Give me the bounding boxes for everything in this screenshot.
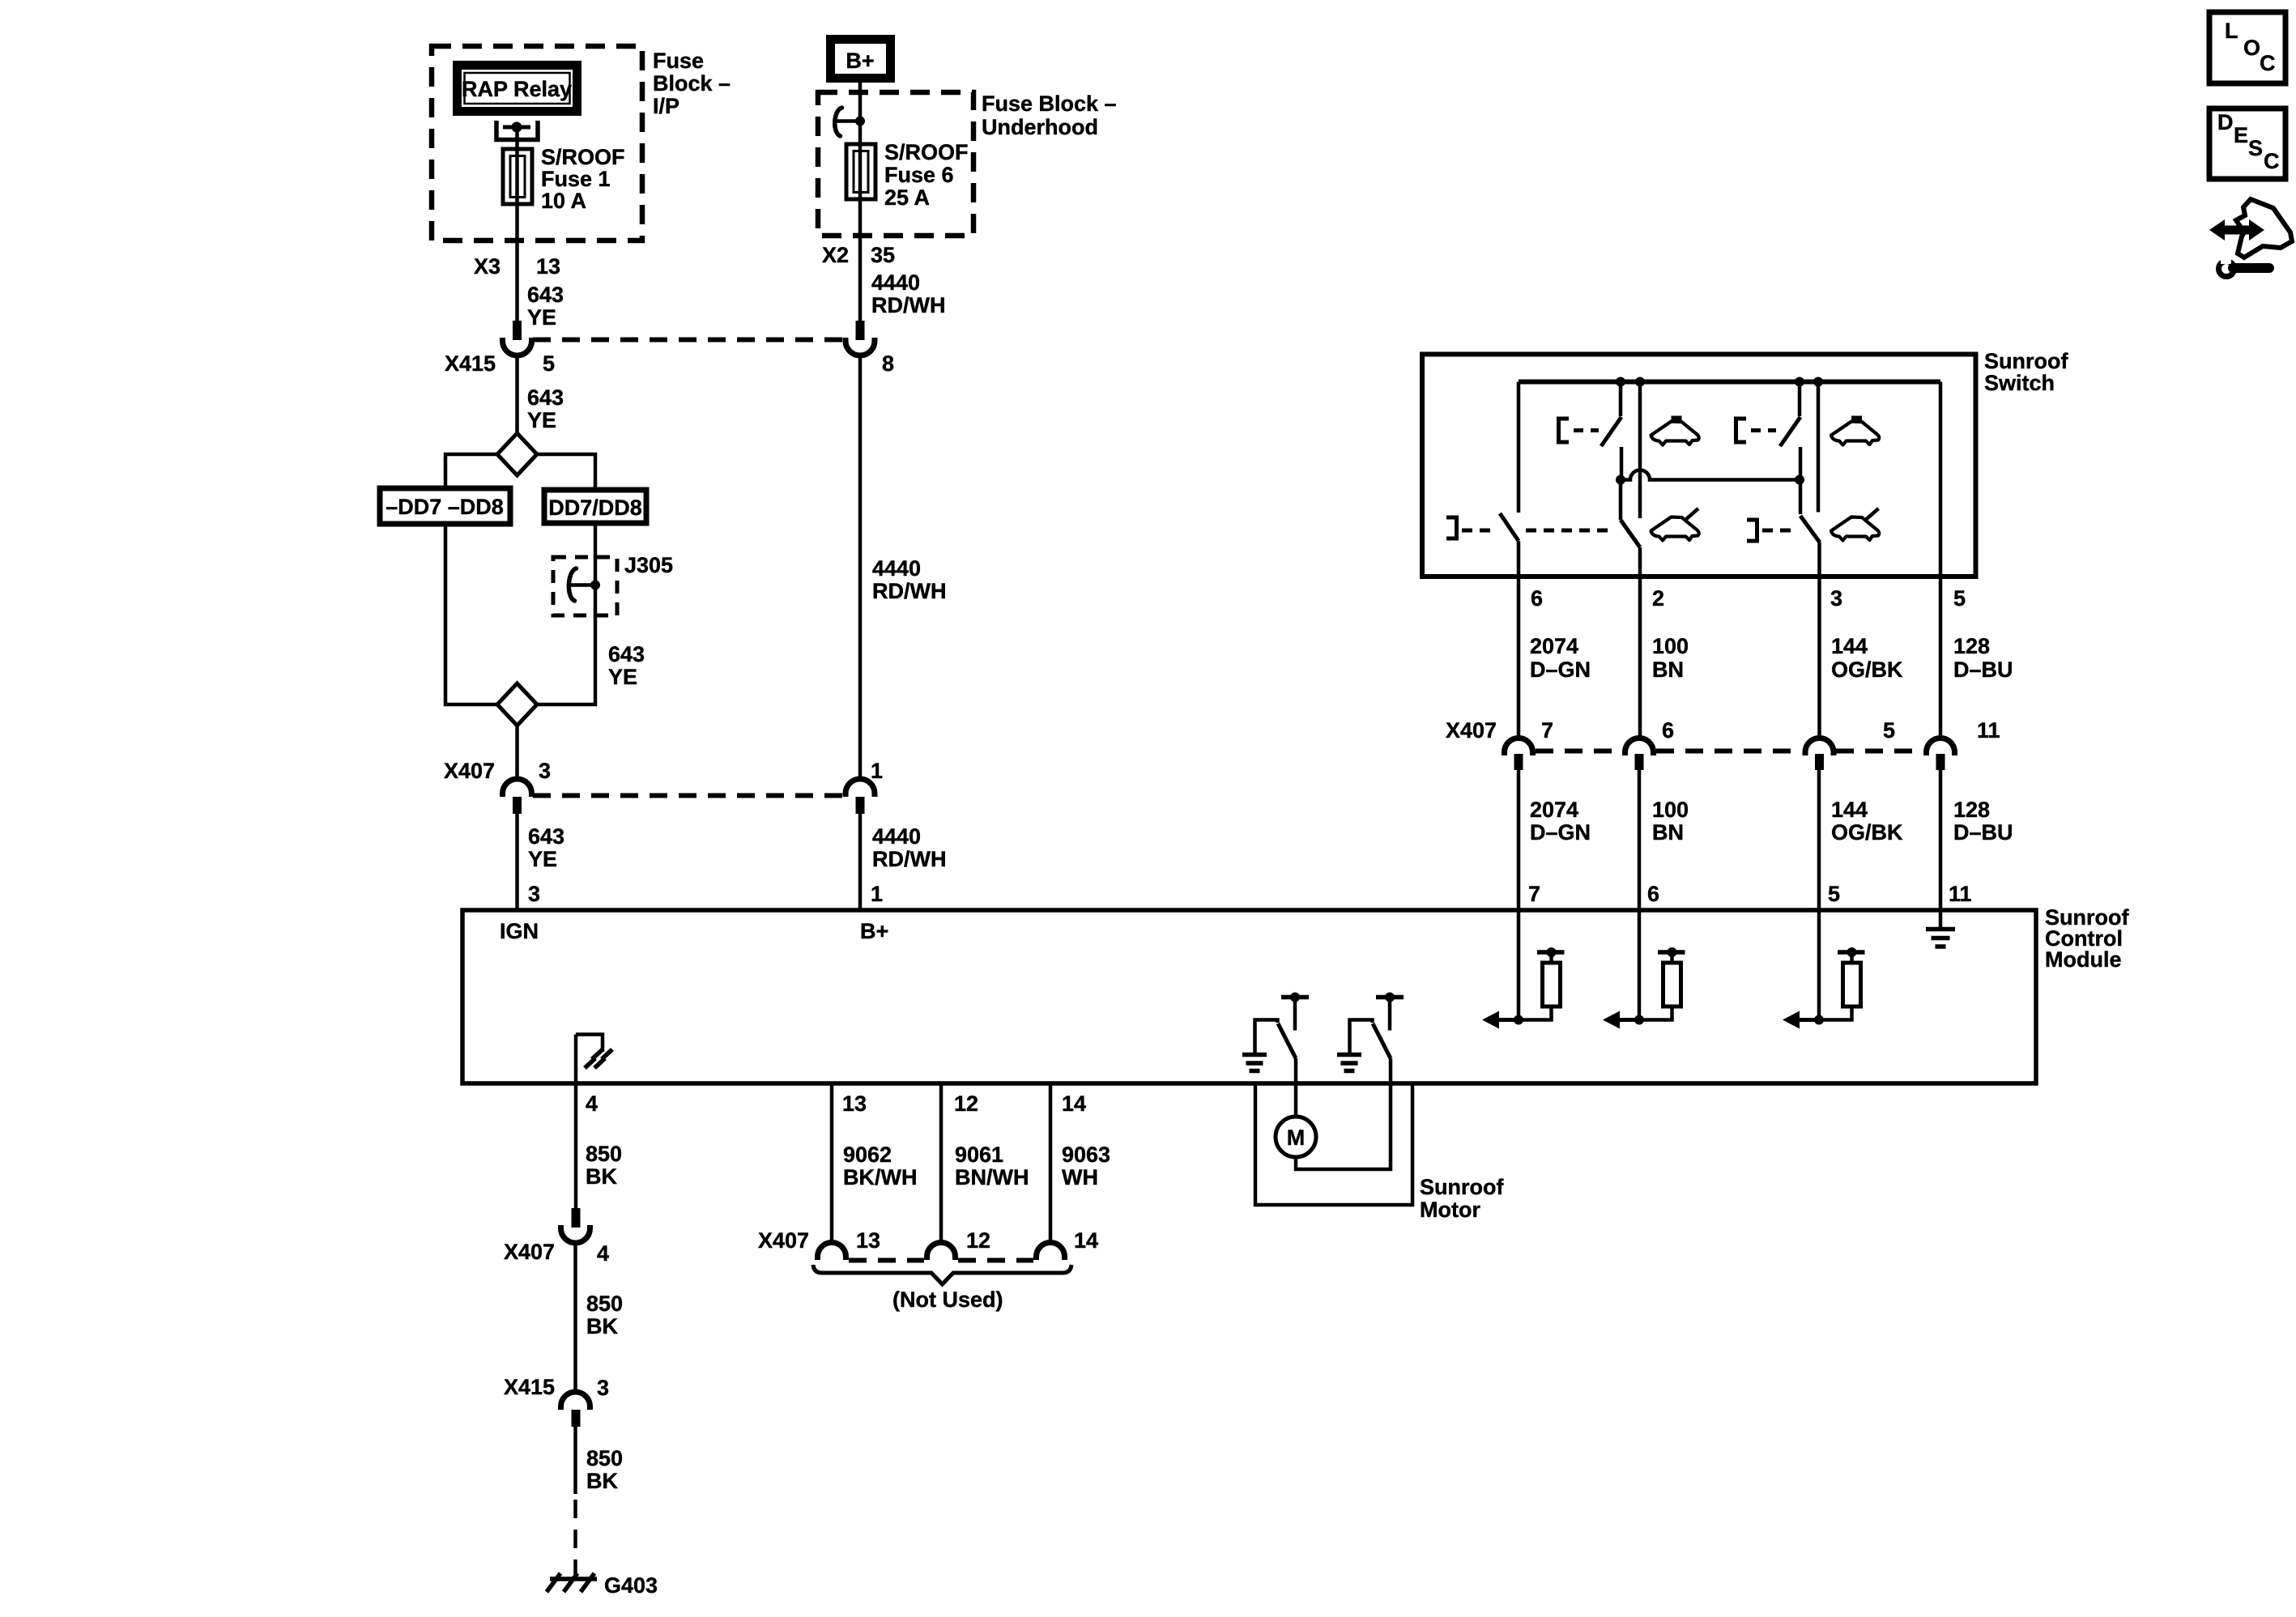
svg-text:12: 12 — [966, 1228, 990, 1253]
label 4440 RD/WH (above module) — [872, 824, 946, 871]
chassis ground (module pin 4 internal) — [576, 1035, 612, 1084]
svg-text:BK/WH: BK/WH — [843, 1165, 917, 1189]
power feed B+ box — [831, 40, 891, 79]
wire fuse6 to X415 pin 8 — [858, 199, 863, 321]
svg-text:2: 2 — [1652, 586, 1664, 611]
svg-text:OG/BK: OG/BK — [1831, 657, 1903, 682]
sunroof switch box — [1422, 355, 1976, 577]
svg-text:14: 14 — [1074, 1228, 1098, 1253]
svg-text:S/ROOF: S/ROOF — [884, 140, 969, 164]
svg-text:6: 6 — [1662, 718, 1674, 743]
label 643 YE (above X415) — [527, 283, 564, 330]
car icon (closed, col2) — [1651, 416, 1699, 445]
label S/ROOF Fuse 1 10 A — [541, 145, 625, 213]
connector X407 row2 arcs — [1505, 738, 1533, 755]
svg-text:I/P: I/P — [653, 94, 679, 118]
switch S4 dashed actuator row (pin6) — [1517, 382, 1521, 513]
svg-text:4440: 4440 — [871, 270, 920, 295]
car icon (vent, col2) — [1651, 509, 1699, 541]
relay contact A (motor drive left) — [1242, 993, 1309, 1084]
svg-text:4: 4 — [597, 1241, 609, 1266]
relay RAP Relay box — [458, 66, 577, 112]
icon power-flow arrow — [2209, 199, 2292, 257]
label 4440 RD/WH (top) — [871, 270, 945, 317]
svg-text:2074: 2074 — [1530, 798, 1578, 822]
label X3 13 — [474, 254, 560, 279]
dashed harness line not-used — [849, 1258, 924, 1263]
svg-text:13: 13 — [856, 1228, 880, 1253]
brace (not used) — [813, 1265, 1071, 1284]
svg-text:YE: YE — [528, 847, 557, 871]
sunroof motor box — [1255, 1083, 1412, 1205]
connector X407 not-used arcs — [818, 1243, 846, 1261]
svg-text:IGN: IGN — [500, 919, 539, 943]
label pins 6 2 3 5 — [1531, 586, 1966, 611]
svg-text:1: 1 — [871, 882, 883, 906]
svg-text:M: M — [1287, 1126, 1306, 1150]
svg-text:850: 850 — [586, 1446, 623, 1470]
switch S1 open contact (upper left) — [1619, 382, 1623, 417]
svg-text:643: 643 — [527, 283, 564, 307]
wire X415 to top diamond — [515, 357, 519, 435]
svg-text:RAP Relay: RAP Relay — [462, 77, 572, 101]
svg-text:BK: BK — [586, 1164, 617, 1189]
sunroof control module box — [462, 910, 2036, 1083]
svg-text:6: 6 — [1531, 586, 1543, 611]
switch bus bar — [1519, 380, 1940, 385]
label Fuse Block - Underhood — [982, 91, 1117, 139]
label 850 BK (middle) — [586, 1291, 623, 1338]
svg-text:Block –: Block – — [653, 71, 731, 96]
svg-text:13: 13 — [842, 1091, 867, 1116]
svg-text:D–GN: D–GN — [1530, 820, 1591, 845]
svg-text:X415: X415 — [445, 351, 496, 376]
car icon (closed, col3) — [1831, 416, 1879, 445]
connector X407 pin 1 (male pin) — [856, 797, 865, 814]
svg-text:Fuse 6: Fuse 6 — [884, 163, 954, 187]
svg-text:850: 850 — [586, 1291, 623, 1316]
wires row2 to module — [1517, 770, 1521, 912]
svg-text:B+: B+ — [846, 49, 874, 73]
svg-text:X3: X3 — [474, 254, 501, 279]
svg-text:X407: X407 — [444, 759, 495, 783]
svg-text:Sunroof: Sunroof — [1420, 1175, 1504, 1199]
wire relay to fuse1 — [515, 127, 519, 154]
wire DD7/DD8 to J305 — [594, 523, 598, 557]
wire left branch (top) — [445, 454, 497, 488]
label module pins 7 6 5 11 — [1528, 882, 1972, 906]
wire X407-4 to X415-3 — [573, 1245, 577, 1394]
svg-text:Fuse Block –: Fuse Block – — [982, 91, 1117, 116]
bus junction dots — [1616, 377, 1625, 387]
wire pin2 out of box — [1638, 547, 1642, 738]
svg-text:100: 100 — [1652, 634, 1689, 658]
icon wrench — [2219, 254, 2270, 277]
wire pin2 from bus (fixed contact) — [1638, 382, 1642, 519]
relay contact B (motor drive right) — [1337, 993, 1404, 1084]
svg-text:144: 144 — [1831, 798, 1868, 822]
dashed harness line X407 — [533, 794, 842, 798]
svg-text:100: 100 — [1652, 798, 1689, 822]
label pin 3 (module IGN) — [528, 882, 540, 906]
svg-text:X415: X415 — [504, 1375, 555, 1399]
svg-text:Fuse: Fuse — [653, 49, 704, 73]
label pins 13 12 14 — [842, 1091, 1086, 1116]
wire right branch (top) — [537, 454, 595, 490]
svg-text:9062: 9062 — [843, 1143, 892, 1167]
svg-text:C: C — [2264, 149, 2280, 173]
label 643 YE (right branch) — [608, 642, 645, 689]
wire fuse1 to X415 pin — [515, 204, 519, 321]
svg-text:5: 5 — [1953, 586, 1966, 611]
label 643 YE (below X415) — [527, 385, 564, 432]
fuse S/ROOF Fuse 1 10A — [503, 149, 532, 204]
label 9061 BN/WH — [955, 1143, 1029, 1189]
switch S2 open contact (upper right) — [1798, 382, 1802, 417]
wire pin3 out of box — [1817, 543, 1821, 738]
splice diamond (top) — [497, 433, 537, 475]
switch S3 blade (lower left col2) — [1619, 480, 1623, 521]
svg-text:X407: X407 — [504, 1240, 555, 1264]
ground (module pin 11) — [1939, 912, 1943, 929]
splice diamond (bottom) — [497, 683, 537, 726]
svg-text:9061: 9061 — [955, 1143, 1003, 1167]
wire X407 to module pin 3 — [515, 814, 519, 912]
driver circuit pin 5 (resistor + arrow) — [1783, 912, 1865, 1029]
fuse S/ROOF Fuse 6 25A — [846, 144, 875, 199]
label 4440 RD/WH (middle) — [872, 556, 946, 603]
wire X407-1 to module pin 1 — [858, 814, 863, 912]
svg-text:–DD7 –DD8: –DD7 –DD8 — [386, 495, 504, 519]
svg-text:RD/WH: RD/WH — [871, 293, 945, 317]
svg-text:BN: BN — [1652, 657, 1684, 682]
connector X407 pin 3 (female arc) — [503, 779, 532, 797]
svg-text:1: 1 — [871, 759, 883, 783]
label Sunroof Motor — [1420, 1175, 1504, 1222]
svg-text:Switch: Switch — [1984, 371, 2055, 395]
icon LOC box — [2209, 12, 2285, 83]
label 643 YE (above module) — [528, 824, 564, 871]
svg-text:11: 11 — [1949, 882, 1972, 906]
wire X415-8 to X407-1 — [858, 357, 863, 780]
svg-text:O: O — [2243, 36, 2260, 60]
svg-text:128: 128 — [1953, 798, 1990, 822]
connector X407 row2 pins — [1514, 754, 1523, 770]
svg-text:11: 11 — [1977, 718, 2000, 743]
svg-text:6: 6 — [1647, 882, 1659, 906]
svg-text:DD7/DD8: DD7/DD8 — [548, 496, 642, 520]
connector X415 pin 5 (male pin) — [513, 321, 522, 340]
svg-text:WH: WH — [1062, 1165, 1098, 1189]
wire left branch (bottom) — [445, 524, 497, 704]
svg-text:B+: B+ — [860, 919, 888, 943]
label pin 1 — [871, 759, 883, 783]
connector X407 pin 3 (male pin) — [513, 797, 522, 814]
label 850 BK (upper) — [586, 1142, 622, 1189]
label pin 4 — [586, 1091, 598, 1116]
relay contact (RAP relay output) — [496, 121, 538, 140]
svg-text:850: 850 — [586, 1142, 622, 1166]
connector X415 pin 8 (female arc) — [846, 338, 875, 355]
label pin 8 — [882, 351, 894, 376]
label IGN B+ — [500, 919, 888, 943]
svg-text:13: 13 — [536, 254, 560, 279]
link wire with crossover hop — [1616, 475, 1625, 485]
label S/ROOF Fuse 6 25 A — [884, 140, 969, 210]
svg-text:Sunroof: Sunroof — [1984, 349, 2068, 373]
svg-text:3: 3 — [528, 882, 540, 906]
label (Not Used) — [892, 1287, 1003, 1312]
svg-text:RD/WH: RD/WH — [872, 579, 946, 603]
label X407 13 12 14 — [758, 1228, 1098, 1253]
label pin 1 (module B+) — [871, 882, 883, 906]
svg-text:D–BU: D–BU — [1953, 657, 2013, 682]
svg-text:Module: Module — [2045, 947, 2122, 972]
car icon (vent, col3) — [1831, 509, 1879, 541]
label wire colors row2 — [1530, 798, 1591, 845]
dashed harness line X415 — [533, 338, 842, 343]
svg-text:4: 4 — [586, 1091, 598, 1116]
connector X415 pin 8 (male pin) — [856, 321, 865, 340]
connector X415 pin 3 (female arc) — [561, 1392, 590, 1410]
svg-text:BK: BK — [586, 1314, 618, 1338]
svg-text:C: C — [2260, 51, 2276, 75]
label X415 5 — [445, 351, 555, 376]
connector X407 pin 1 (female arc) — [846, 779, 875, 797]
motor loop wire — [1296, 1083, 1391, 1169]
wire B+ into fuse block — [858, 83, 863, 144]
svg-text:(Not Used): (Not Used) — [892, 1287, 1003, 1312]
icon DESC box — [2209, 109, 2285, 179]
option box -DD7 -DD8 — [380, 488, 510, 524]
driver circuit pin 7 (resistor + arrow) — [1482, 912, 1565, 1029]
fuse block underhood dashed box — [818, 92, 973, 236]
svg-text:5: 5 — [1883, 718, 1895, 743]
dashed wire to G403 — [573, 1500, 577, 1579]
svg-text:643: 643 — [527, 385, 564, 410]
svg-text:BN/WH: BN/WH — [955, 1165, 1029, 1189]
label 9063 WH — [1062, 1143, 1110, 1189]
svg-text:E: E — [2234, 123, 2248, 147]
label X415 3 — [504, 1375, 609, 1400]
svg-text:YE: YE — [527, 408, 556, 432]
svg-text:Fuse 1: Fuse 1 — [541, 167, 611, 191]
svg-text:S: S — [2248, 136, 2263, 160]
svg-text:3: 3 — [597, 1376, 609, 1400]
svg-text:YE: YE — [608, 665, 637, 689]
label Fuse Block I/P — [653, 49, 731, 118]
svg-text:YE: YE — [527, 305, 556, 330]
svg-text:144: 144 — [1831, 634, 1868, 658]
label J305 — [624, 553, 673, 577]
svg-text:643: 643 — [608, 642, 645, 666]
svg-text:128: 128 — [1953, 634, 1990, 658]
wire X415-3 down — [573, 1427, 577, 1494]
svg-text:7: 7 — [1541, 718, 1553, 743]
label X407 7 6 5 11 — [1446, 718, 2000, 743]
J305 bus hook — [569, 568, 576, 601]
svg-text:L: L — [2225, 19, 2238, 43]
svg-text:Underhood: Underhood — [982, 115, 1098, 139]
svg-text:5: 5 — [1828, 882, 1840, 906]
label wire colors row1 — [1530, 634, 1591, 682]
label X407 3 — [444, 759, 551, 783]
connector X415 pin 5 (female arc) — [503, 338, 532, 355]
svg-text:9063: 9063 — [1062, 1143, 1110, 1167]
svg-text:RD/WH: RD/WH — [872, 847, 946, 871]
svg-text:4440: 4440 — [872, 824, 921, 849]
wire diamond to X407 — [515, 726, 519, 780]
label X407 4 — [504, 1240, 609, 1266]
svg-text:J305: J305 — [624, 553, 673, 577]
label X2 35 — [822, 243, 895, 267]
svg-text:2074: 2074 — [1530, 634, 1578, 658]
svg-text:X2: X2 — [822, 243, 849, 267]
svg-text:D: D — [2217, 110, 2234, 134]
svg-text:643: 643 — [528, 824, 564, 849]
svg-text:4440: 4440 — [872, 556, 921, 581]
svg-text:25 A: 25 A — [884, 185, 930, 210]
svg-text:8: 8 — [882, 351, 894, 376]
svg-text:5: 5 — [543, 351, 555, 376]
connector X415 pin 3 (male pin) — [572, 1410, 581, 1427]
connector X407 pin 4 (female arc) — [561, 1225, 590, 1243]
svg-text:BK: BK — [586, 1469, 618, 1493]
motor M circle — [1294, 1083, 1298, 1117]
svg-text:7: 7 — [1528, 882, 1540, 906]
fuse block I/P dashed box — [432, 46, 642, 240]
svg-text:S/ROOF: S/ROOF — [541, 145, 625, 169]
svg-text:Motor: Motor — [1420, 1198, 1480, 1222]
svg-text:10 A: 10 A — [541, 189, 586, 213]
wire pin6 out of box — [1517, 541, 1521, 738]
dashed harness line X407 row2 — [1536, 749, 1622, 754]
label G403 — [604, 1573, 658, 1598]
ground G403 — [547, 1573, 597, 1592]
driver circuit pin 6 (resistor + arrow) — [1603, 912, 1685, 1029]
label Sunroof Switch — [1984, 349, 2068, 395]
label 9062 BK/WH — [843, 1143, 917, 1189]
wire J305 through to bottom diamond — [538, 557, 595, 704]
svg-text:14: 14 — [1062, 1091, 1086, 1116]
svg-text:D–BU: D–BU — [1953, 820, 2013, 845]
splice J305 dashed box — [553, 557, 617, 615]
wires module pins 13 12 14 — [830, 1083, 834, 1245]
svg-text:BN: BN — [1652, 820, 1684, 845]
connector X407 pin 4 (male pin) — [572, 1208, 581, 1228]
svg-text:D–GN: D–GN — [1530, 657, 1591, 682]
svg-text:X407: X407 — [1446, 718, 1497, 743]
switch S5 dashed actuator row (pin3) — [1747, 520, 1757, 541]
svg-text:3: 3 — [539, 759, 551, 783]
svg-text:X407: X407 — [758, 1228, 809, 1253]
wire pin5 from bus out of box — [1939, 382, 1943, 738]
svg-text:G403: G403 — [604, 1573, 658, 1598]
wire module pin 4 to X407 — [574, 1083, 578, 1208]
svg-text:3: 3 — [1830, 586, 1842, 611]
label 850 BK (lower) — [586, 1446, 623, 1493]
label Sunroof Control Module — [2045, 905, 2129, 972]
svg-text:OG/BK: OG/BK — [1831, 820, 1903, 845]
svg-text:12: 12 — [954, 1091, 978, 1116]
svg-text:35: 35 — [871, 243, 895, 267]
option box DD7/DD8 — [544, 490, 646, 523]
bus feed hook (underhood) — [835, 108, 842, 136]
